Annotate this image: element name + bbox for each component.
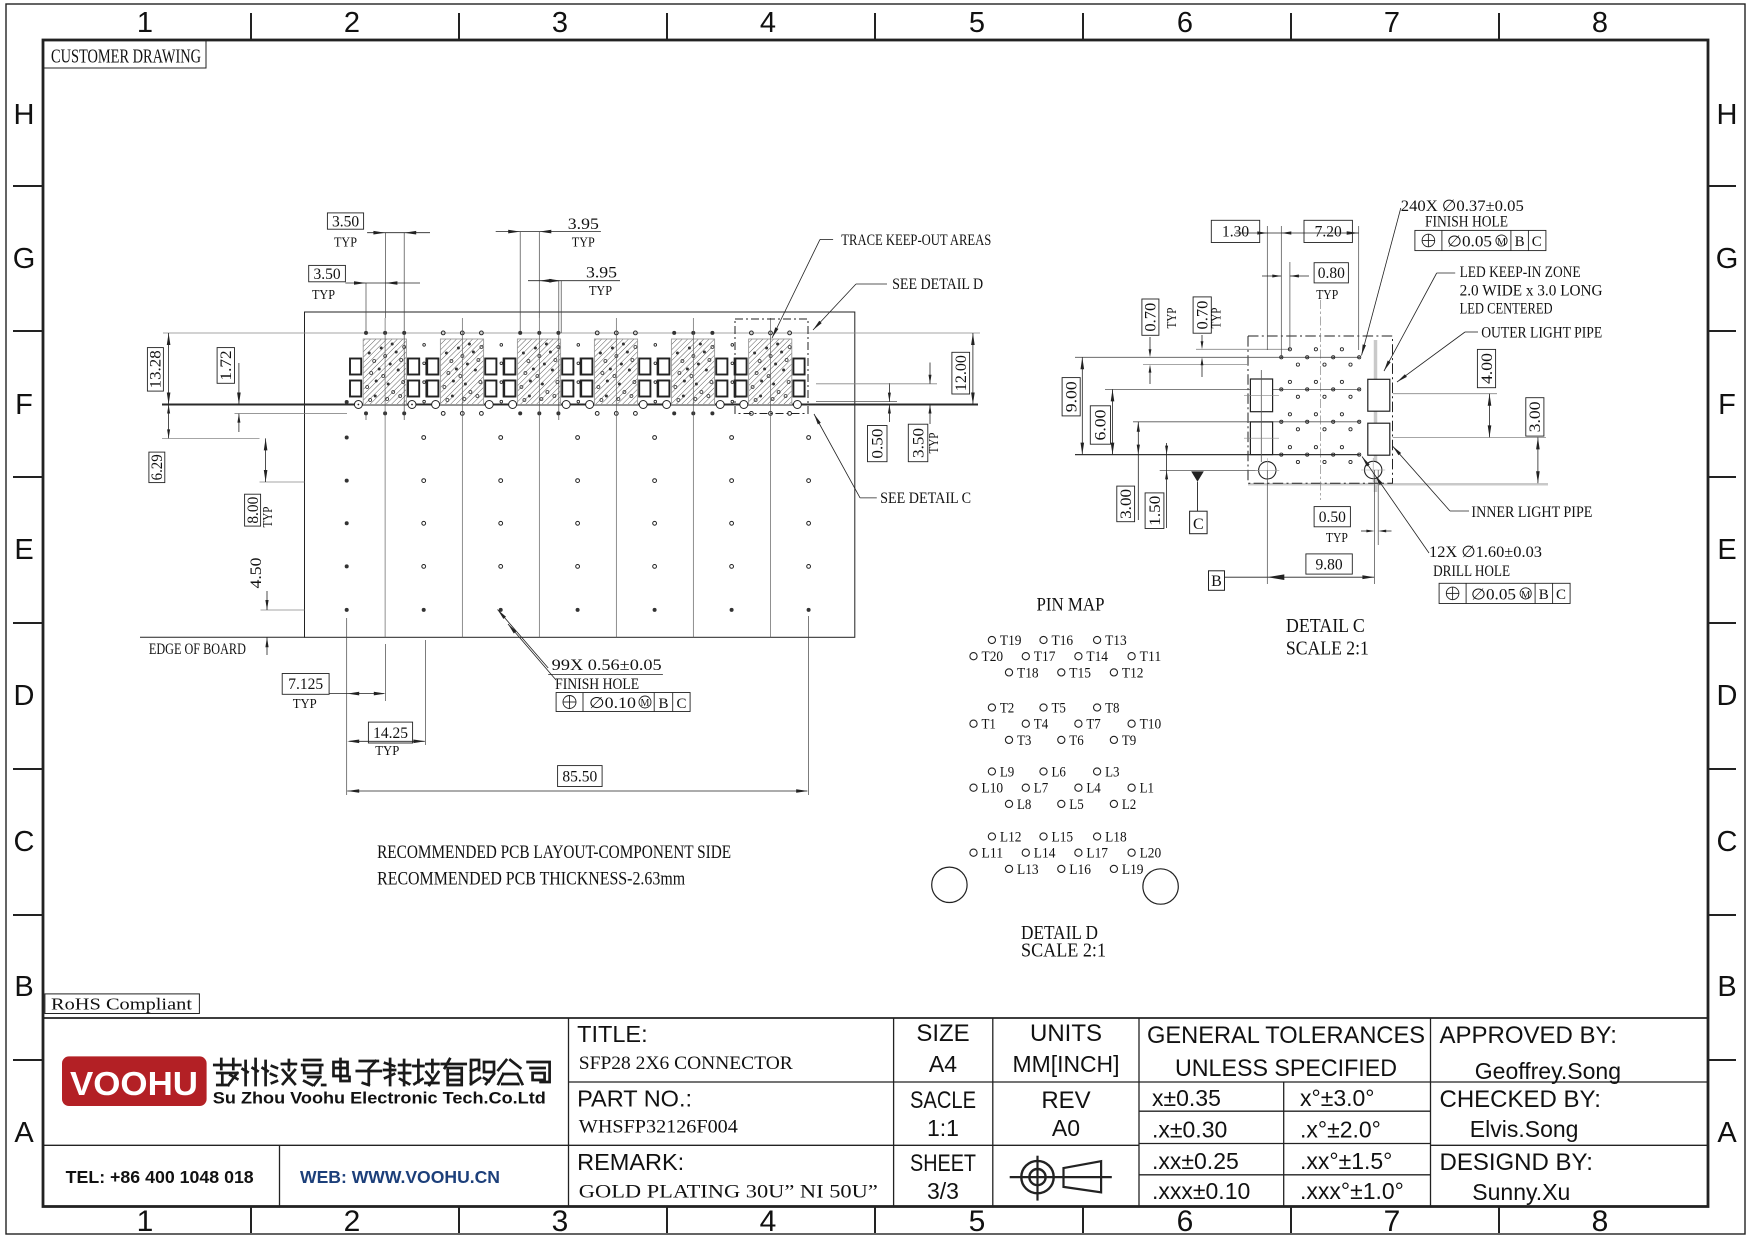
svg-text:T10: T10 [1140,717,1162,733]
svg-text:Geoffrey.Song: Geoffrey.Song [1475,1058,1621,1084]
svg-text:A4: A4 [929,1051,957,1077]
svg-text:B: B [1515,234,1525,250]
svg-text:240X ∅0.37±0.05: 240X ∅0.37±0.05 [1401,198,1524,215]
svg-text:L13: L13 [1017,862,1039,878]
svg-text:D: D [14,680,35,712]
svg-text:M: M [641,698,650,709]
svg-text:B: B [1717,971,1736,1003]
svg-text:3.50: 3.50 [313,266,340,283]
svg-text:UNITS: UNITS [1030,1020,1102,1047]
svg-text:1.30: 1.30 [1222,224,1249,241]
svg-text:5: 5 [969,7,985,39]
svg-text:B: B [14,971,33,1003]
svg-text:F: F [15,389,33,421]
svg-text:M: M [1497,237,1507,248]
svg-text:9.00: 9.00 [1063,381,1080,412]
svg-text:SFP28 2X6 CONNECTOR: SFP28 2X6 CONNECTOR [579,1053,793,1074]
svg-text:.xxx°±1.0°: .xxx°±1.0° [1300,1178,1404,1204]
svg-text:TYP: TYP [572,236,595,251]
svg-text:L8: L8 [1017,797,1031,813]
svg-text:6: 6 [1177,7,1193,39]
svg-text:L19: L19 [1122,862,1144,878]
svg-text:RoHS Compliant: RoHS Compliant [51,995,193,1014]
svg-text:L6: L6 [1052,765,1066,781]
svg-text:0.80: 0.80 [1318,265,1345,282]
svg-text:RECOMMENDED PCB LAYOUT-COMPONE: RECOMMENDED PCB LAYOUT-COMPONENT SIDE [377,842,731,863]
svg-text:B: B [1539,587,1549,603]
svg-text:T1: T1 [982,717,996,733]
svg-text:TYP: TYP [1326,531,1348,546]
svg-text:x°±3.0°: x°±3.0° [1300,1085,1375,1111]
svg-text:3.00: 3.00 [1527,401,1544,432]
svg-text:TYP: TYP [260,507,275,528]
svg-text:C: C [1717,826,1738,858]
svg-text:2: 2 [344,7,360,39]
svg-text:WEB: WWW.VOOHU.CN: WEB: WWW.VOOHU.CN [300,1167,500,1187]
svg-text:REV: REV [1041,1087,1090,1114]
svg-text:OUTER LIGHT PIPE: OUTER LIGHT PIPE [1481,324,1602,341]
svg-text:GOLD PLATING 30U” NI 50U”: GOLD PLATING 30U” NI 50U” [579,1182,878,1203]
svg-text:DESIGND BY:: DESIGND BY: [1440,1149,1593,1176]
svg-text:T11: T11 [1140,649,1162,665]
svg-text:T7: T7 [1086,717,1100,733]
svg-text:LED CENTERED: LED CENTERED [1460,300,1553,317]
svg-text:TYP: TYP [334,236,357,251]
svg-text:H: H [1717,99,1738,131]
svg-text:G: G [13,243,36,275]
svg-text:L10: L10 [982,781,1004,797]
svg-text:APPROVED BY:: APPROVED BY: [1440,1022,1617,1049]
svg-text:C: C [14,826,35,858]
svg-text:L15: L15 [1052,830,1074,846]
svg-text:T15: T15 [1069,665,1091,681]
svg-text:L12: L12 [1000,830,1022,846]
svg-text:LED KEEP-IN ZONE: LED KEEP-IN ZONE [1460,264,1581,281]
svg-text:SIZE: SIZE [916,1020,969,1047]
svg-text:7.20: 7.20 [1315,224,1342,241]
svg-text:TRACE KEEP-OUT AREAS: TRACE KEEP-OUT AREAS [841,232,991,249]
svg-text:L18: L18 [1105,830,1127,846]
svg-text:3.00: 3.00 [1118,489,1135,519]
svg-text:DRILL HOLE: DRILL HOLE [1433,563,1510,580]
svg-text:C: C [676,696,686,712]
svg-text:12.00: 12.00 [953,355,970,391]
svg-text:DETAIL C: DETAIL C [1286,615,1365,637]
svg-text:SEE DETAIL C: SEE DETAIL C [880,490,971,507]
svg-text:FINISH HOLE: FINISH HOLE [555,676,639,693]
svg-text:T18: T18 [1017,665,1039,681]
svg-text:5: 5 [969,1205,986,1238]
svg-text:SHEET: SHEET [910,1150,976,1177]
svg-text:PIN MAP: PIN MAP [1037,595,1105,616]
svg-text:L14: L14 [1034,846,1056,862]
svg-text:3.50: 3.50 [332,213,359,230]
svg-text:D: D [1717,680,1738,712]
svg-text:H: H [14,99,35,131]
svg-text:2.0 WIDE x 3.0 LONG: 2.0 WIDE x 3.0 LONG [1460,283,1603,300]
svg-text:VOOHU: VOOHU [70,1065,198,1102]
svg-text:TYP: TYP [375,744,399,759]
svg-text:T17: T17 [1034,649,1056,665]
svg-text:4.50: 4.50 [248,557,265,588]
svg-text:.xx°±1.5°: .xx°±1.5° [1300,1148,1392,1174]
svg-text:TYP: TYP [589,284,612,299]
svg-text:4.00: 4.00 [1479,353,1496,384]
svg-text:L17: L17 [1086,846,1108,862]
svg-text:6: 6 [1177,1205,1194,1238]
svg-text:C: C [1193,516,1204,533]
svg-text:1.50: 1.50 [1147,495,1164,525]
svg-text:Su Zhou Voohu Electronic Tech.: Su Zhou Voohu Electronic Tech.Co.Ltd [213,1089,546,1108]
svg-text:RECOMMENDED PCB THICKNESS-2.63: RECOMMENDED PCB THICKNESS-2.63mm [377,869,685,890]
svg-text:WHSFP32126F004: WHSFP32126F004 [579,1117,739,1138]
svg-text:0.50: 0.50 [870,428,887,458]
svg-text:x±0.35: x±0.35 [1152,1085,1221,1111]
svg-text:T5: T5 [1052,701,1066,717]
svg-text:4: 4 [760,7,776,39]
svg-text:C: C [1532,234,1542,250]
svg-text:TYP: TYP [1209,308,1224,329]
svg-text:3.95: 3.95 [586,265,617,282]
svg-text:∅0.10: ∅0.10 [589,695,636,712]
svg-text:TEL: +86 400 1048 018: TEL: +86 400 1048 018 [66,1167,254,1187]
svg-text:G: G [1716,243,1739,275]
svg-text:T20: T20 [982,649,1004,665]
svg-text:MM[INCH]: MM[INCH] [1013,1051,1120,1077]
svg-text:.x±0.30: .x±0.30 [1152,1117,1227,1143]
svg-text:.x°±2.0°: .x°±2.0° [1300,1117,1381,1143]
svg-text:GENERAL TOLERANCES: GENERAL TOLERANCES [1147,1022,1425,1049]
svg-text:B: B [1211,573,1222,590]
svg-text:TITLE:: TITLE: [577,1021,648,1047]
svg-text:3.50: 3.50 [910,428,927,458]
svg-text:SEE DETAIL D: SEE DETAIL D [892,276,983,293]
svg-text:T3: T3 [1017,733,1031,749]
svg-text:T2: T2 [1000,701,1014,717]
svg-text:SCALE 2:1: SCALE 2:1 [1286,638,1369,660]
svg-text:TYP: TYP [293,697,317,712]
svg-text:14.25: 14.25 [373,725,408,742]
svg-text:E: E [1717,534,1736,566]
svg-text:4: 4 [760,1205,777,1238]
svg-text:FINISH HOLE: FINISH HOLE [1425,214,1508,231]
svg-text:T13: T13 [1105,633,1127,649]
svg-text:L4: L4 [1086,781,1101,797]
svg-text:TYP: TYP [1316,288,1338,303]
svg-text:1:1: 1:1 [927,1115,959,1141]
svg-text:T12: T12 [1122,665,1144,681]
svg-text:85.50: 85.50 [562,768,597,785]
svg-text:1: 1 [137,1205,154,1238]
svg-text:0.70: 0.70 [1143,302,1160,331]
svg-text:8: 8 [1592,1205,1609,1238]
svg-text:T6: T6 [1069,733,1083,749]
svg-text:12X ∅1.60±0.03: 12X ∅1.60±0.03 [1429,544,1542,561]
svg-text:C: C [1556,587,1566,603]
svg-text:7: 7 [1384,1205,1401,1238]
svg-text:CHECKED BY:: CHECKED BY: [1440,1086,1601,1113]
svg-text:A0: A0 [1052,1115,1080,1141]
svg-text:3/3: 3/3 [927,1178,959,1204]
svg-text:6.00: 6.00 [1093,409,1110,440]
svg-text:L1: L1 [1140,781,1154,797]
svg-text:EDGE OF BOARD: EDGE OF BOARD [149,641,246,658]
svg-text:∅0.05: ∅0.05 [1447,234,1492,251]
svg-text:L2: L2 [1122,797,1136,813]
svg-text:REMARK:: REMARK: [577,1149,684,1175]
svg-text:F: F [1718,389,1736,421]
svg-text:1.72: 1.72 [218,350,235,380]
svg-text:.xxx±0.10: .xxx±0.10 [1152,1178,1250,1204]
svg-text:L9: L9 [1000,765,1014,781]
svg-text:PART NO.:: PART NO.: [577,1086,692,1112]
svg-text:Elvis.Song: Elvis.Song [1470,1116,1579,1142]
svg-text:UNLESS SPECIFIED: UNLESS SPECIFIED [1175,1055,1397,1082]
svg-text:3: 3 [552,1205,569,1238]
svg-text:A: A [1717,1117,1737,1149]
svg-text:99X 0.56±0.05: 99X 0.56±0.05 [552,657,662,674]
svg-text:CUSTOMER DRAWING: CUSTOMER DRAWING [51,46,201,68]
svg-text:9.80: 9.80 [1316,556,1343,573]
svg-text:TYP: TYP [926,433,941,454]
svg-text:T14: T14 [1086,649,1108,665]
svg-text:T19: T19 [1000,633,1022,649]
svg-text:L16: L16 [1069,862,1091,878]
svg-text:A: A [14,1117,34,1149]
svg-text:T4: T4 [1034,717,1049,733]
svg-text:B: B [658,696,668,712]
svg-text:1: 1 [137,7,153,39]
svg-text:TYP: TYP [312,288,335,303]
svg-text:2: 2 [344,1205,361,1238]
svg-text:3.95: 3.95 [568,216,599,233]
svg-text:L7: L7 [1034,781,1048,797]
svg-text:13.28: 13.28 [148,350,165,388]
svg-text:∅0.05: ∅0.05 [1471,587,1516,604]
svg-text:L11: L11 [982,846,1004,862]
svg-text:T9: T9 [1122,733,1136,749]
svg-text:INNER LIGHT PIPE: INNER LIGHT PIPE [1471,504,1592,521]
svg-text:8: 8 [1592,7,1608,39]
svg-text:TYP: TYP [1164,308,1179,329]
svg-text:T16: T16 [1052,633,1074,649]
svg-text:3: 3 [552,7,568,39]
svg-text:L5: L5 [1069,797,1083,813]
svg-text:M: M [1521,590,1531,601]
svg-text:L3: L3 [1105,765,1119,781]
svg-text:Sunny.Xu: Sunny.Xu [1472,1179,1570,1205]
svg-text:E: E [14,534,33,566]
svg-text:6.29: 6.29 [149,454,166,480]
svg-text:.xx±0.25: .xx±0.25 [1152,1148,1239,1174]
svg-text:7.125: 7.125 [288,676,323,693]
svg-text:0.50: 0.50 [1319,509,1346,526]
svg-text:L20: L20 [1140,846,1162,862]
svg-text:SCALE 2:1: SCALE 2:1 [1021,940,1106,962]
svg-text:7: 7 [1384,7,1400,39]
svg-text:SACLE: SACLE [910,1087,976,1114]
svg-text:T8: T8 [1105,701,1119,717]
